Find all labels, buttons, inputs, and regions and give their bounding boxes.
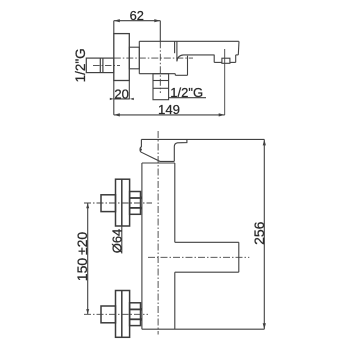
sub-body under spout (174, 74, 176, 76)
dim 150±20 line (87, 203, 89, 314)
top inlet: union nut (101, 195, 116, 212)
wall plate P1 (edge view) (114, 34, 130, 81)
spout tip (slanted end) (237, 41, 240, 55)
dim 20 line (114, 98, 130, 100)
svg-text:149: 149 (158, 102, 180, 117)
spout bottom edge (184, 54, 215, 56)
inlet nipple (hex union, side view) (86, 58, 114, 73)
svg-text:1/2"G: 1/2"G (170, 85, 203, 100)
spout underside curve (177, 55, 184, 61)
connector bushing between plate and body (129, 47, 139, 69)
leader for Ø64 (121, 226, 123, 254)
spout (front view, T-protrusion) (175, 241, 239, 243)
aerator housing (213, 55, 215, 63)
dim 62: line + extension (114, 20, 161, 22)
spout centerline (148, 256, 249, 258)
hex facet lines (99, 58, 101, 73)
top inlet: flange (101, 179, 142, 226)
top inlet centerline (84, 202, 152, 204)
bottom outlet (1/2"G hand-shower connection) (153, 74, 169, 100)
aerator insert (222, 58, 230, 63)
joint lines body/spout (174, 41, 176, 53)
nipple centerline (93, 64, 120, 66)
outline box (256 overall height) (141, 138, 264, 140)
lever handle (140, 139, 174, 161)
aerator centerline / extension to 149 dim (224, 49, 226, 115)
extension line from wall surface (shared for dims 62/20/149) (113, 21, 115, 34)
main horizontal centerline of body (114, 57, 193, 59)
256 dim arrows (263, 139, 266, 145)
leader underline for 1/2"G label (169, 97, 206, 99)
dim 149 line (114, 114, 225, 116)
outlet vertical centerline (159, 41, 161, 93)
column vertical centerline (157, 131, 159, 335)
svg-text:150 ±20: 150 ±20 (74, 232, 90, 282)
svg-text:Ø64: Ø64 (109, 229, 124, 254)
extension of plate right edge for dim 20 (128, 81, 130, 99)
bottom inlet: hex nut (130, 303, 141, 326)
svg-text:1/2"G: 1/2"G (73, 48, 88, 82)
body column (142, 162, 175, 164)
top inlet: hex nut (130, 192, 141, 215)
svg-text:20: 20 (114, 86, 128, 101)
svg-text:62: 62 (130, 8, 144, 23)
bottom inlet centerline (84, 313, 148, 315)
bottom inlet: union nut (101, 306, 116, 323)
svg-text:256: 256 (251, 221, 267, 245)
bottom inlet: flange (101, 291, 142, 338)
mixer body (square) (138, 41, 140, 73)
